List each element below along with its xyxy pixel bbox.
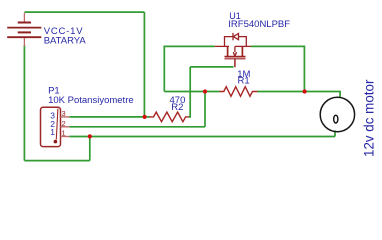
wire battery bottom down bbox=[23, 45, 25, 161]
wire motor bottom stub bbox=[334, 131, 336, 137]
wire pin2 vertical up to R1 row bbox=[204, 92, 206, 127]
wire pin2 row bbox=[69, 126, 205, 128]
wire mosfet left to R1 row corner bbox=[164, 46, 214, 91]
channel stubs bbox=[227, 46, 229, 56]
main right segment bbox=[235, 45, 251, 47]
junction dot A (battery top / pin3 row) bbox=[143, 115, 147, 119]
wire R2 right to gate vertical bbox=[189, 67, 191, 117]
gate bar bbox=[225, 58, 246, 60]
P1 blue pin names 3,2,1 bbox=[50, 111, 55, 138]
junction dot C (R1 right / mosfet right / motor top) bbox=[303, 89, 307, 93]
junction dot B (pin2 / R1 row) bbox=[203, 89, 207, 93]
resistor R1 bbox=[220, 87, 258, 97]
wire up to pin1 row bbox=[89, 137, 91, 161]
battery B1 plates bbox=[7, 23, 41, 38]
svg-text:12v dc motor: 12v dc motor bbox=[362, 79, 377, 157]
diode cathode bar bbox=[232, 33, 234, 40]
body diode loop bbox=[225, 37, 233, 47]
svg-text:R1: R1 bbox=[238, 76, 250, 87]
wire pin1 long row to motor bottom bbox=[69, 136, 335, 138]
svg-text:3: 3 bbox=[62, 109, 66, 118]
svg-text:10K Potansiyometre: 10K Potansiyometre bbox=[48, 95, 134, 106]
potentiometer P1 box bbox=[41, 107, 61, 146]
diode triangle bbox=[233, 34, 238, 40]
wire R1 row left segment bbox=[164, 91, 219, 93]
wire pin3 row to R2 bbox=[69, 116, 149, 118]
motor inner glyph bbox=[334, 115, 338, 123]
svg-text:IRF540NLPBF: IRF540NLPBF bbox=[228, 19, 290, 30]
substrate arrow bbox=[234, 46, 236, 52]
P1 wiper arrow bbox=[56, 109, 58, 140]
mosfet U1 bbox=[215, 33, 251, 67]
P1 red pin numbers 3,2,1 bbox=[62, 109, 66, 138]
left pin bbox=[215, 45, 229, 47]
svg-text:2: 2 bbox=[62, 119, 66, 128]
wire R1 row right segment to motor top bbox=[258, 92, 341, 99]
wire top from battery+ to vertical bbox=[24, 11, 144, 13]
svg-text:1: 1 bbox=[62, 129, 66, 138]
resistor R2 bbox=[149, 112, 189, 122]
wire vertical battery top to pin3 row bbox=[143, 12, 145, 117]
svg-text:R2: R2 bbox=[171, 102, 183, 113]
wire mosfet right pin to right vertical bbox=[251, 46, 304, 91]
P1 pin stubs bbox=[61, 117, 70, 137]
junction dot D (battery- / pin1 row) bbox=[88, 134, 92, 138]
svg-text:BATARYA: BATARYA bbox=[44, 35, 87, 46]
channel bar bbox=[225, 56, 246, 58]
wire bottom left run bbox=[24, 160, 89, 162]
wire gate row bbox=[190, 66, 233, 68]
svg-text:1: 1 bbox=[50, 127, 55, 137]
battery B1 stubs bbox=[23, 13, 25, 47]
motor M1 body bbox=[320, 97, 354, 131]
gate pin bbox=[234, 59, 236, 67]
